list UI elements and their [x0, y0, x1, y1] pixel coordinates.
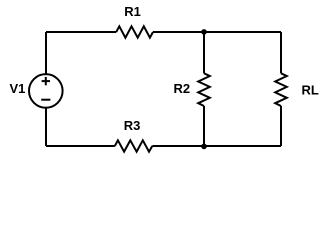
wire right branch lower: [280, 106, 282, 146]
wire left branch upper: [45, 32, 47, 75]
wire bottom-left horizontal: [46, 145, 115, 147]
wire bottom-right horizontal: [152, 145, 281, 147]
svg-text:V1: V1: [10, 81, 26, 96]
junction dot top node: [201, 29, 207, 35]
voltage source V1: [29, 74, 63, 108]
resistor R3: [115, 140, 153, 151]
resistor RL: [275, 73, 287, 106]
svg-text:R3: R3: [124, 118, 141, 133]
svg-text:RL: RL: [302, 83, 319, 98]
wire right branch upper: [280, 32, 282, 73]
wire top-right horizontal: [153, 31, 281, 33]
junction dot bottom node: [201, 144, 207, 150]
wire left branch lower: [45, 108, 47, 147]
svg-text:R1: R1: [124, 4, 141, 19]
V1 plus sign: [42, 77, 50, 85]
resistor R2: [198, 73, 210, 106]
resistor R1: [116, 26, 153, 37]
wire R2 branch lower: [203, 106, 205, 146]
wire top-left horizontal: [46, 31, 116, 33]
wire R2 branch upper: [203, 32, 205, 73]
V1 minus sign: [41, 99, 50, 101]
svg-text:R2: R2: [174, 81, 191, 96]
